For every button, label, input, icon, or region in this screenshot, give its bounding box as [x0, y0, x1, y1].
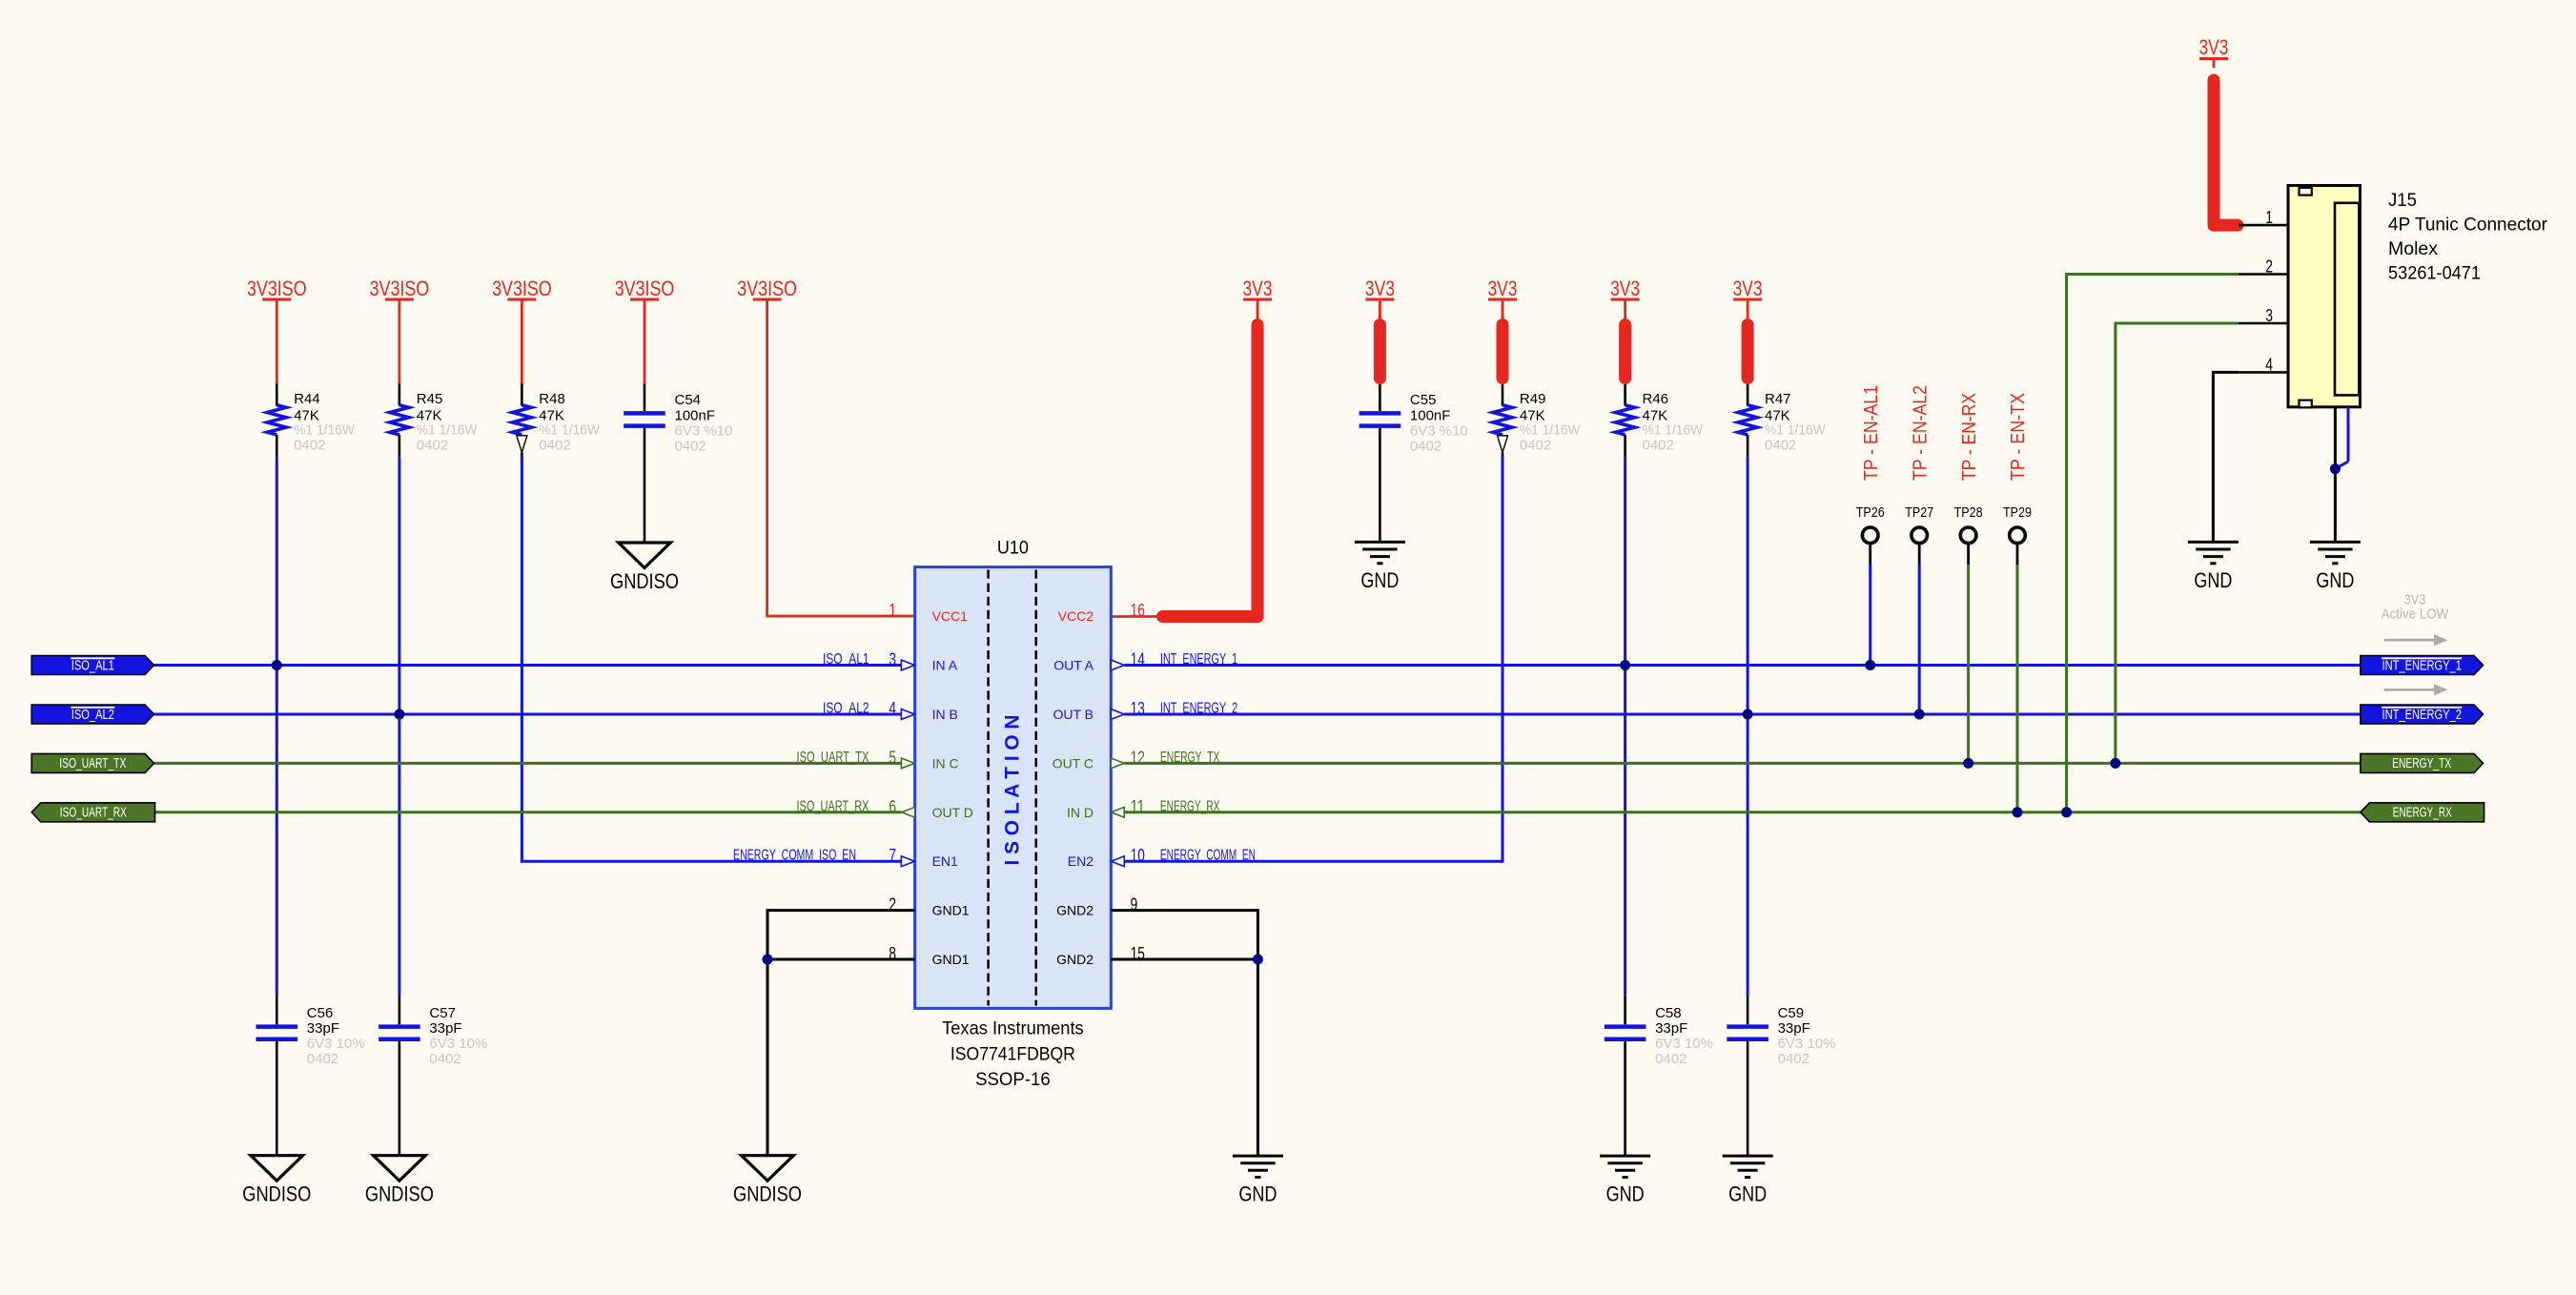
port INT_ENERGY_2 [2361, 705, 2484, 724]
svg-text:GND: GND [2194, 568, 2232, 592]
svg-text:GNDISO: GNDISO [733, 1182, 802, 1206]
svg-text:TP - EN-TX: TP - EN-TX [2008, 393, 2029, 481]
svg-text:3V3: 3V3 [1733, 277, 1763, 300]
connector J15 inner slot [2335, 203, 2359, 396]
port ISO_AL2 [31, 705, 153, 724]
svg-text:6: 6 [889, 796, 896, 816]
svg-text:4: 4 [2265, 354, 2273, 374]
svg-text:4: 4 [889, 698, 896, 718]
svg-text:R49: R49 [1520, 391, 1546, 407]
svg-text:ISO_AL1: ISO_AL1 [823, 651, 869, 668]
node ISO_AL2/R45 [394, 709, 404, 720]
svg-text:EN1: EN1 [932, 853, 958, 869]
svg-text:33pF: 33pF [1778, 1020, 1810, 1037]
svg-text:INT_ENERGY_2: INT_ENERGY_2 [1160, 701, 1237, 717]
svg-text:53261-0471: 53261-0471 [2388, 263, 2481, 284]
capacitor C59 [1727, 996, 1768, 1156]
svg-text:OUT D: OUT D [932, 805, 973, 820]
test point TP29 pad [2010, 527, 2026, 544]
power stub 3V3 #4 [1624, 301, 1626, 321]
svg-text:GND: GND [1238, 1182, 1277, 1206]
svg-text:3: 3 [889, 649, 896, 669]
power port 3V3ISO #3 [492, 277, 552, 300]
svg-text:GND2: GND2 [1056, 903, 1094, 918]
connector J15 notch top [2300, 188, 2312, 195]
capacitor C57 labels [429, 1005, 487, 1067]
svg-text:ENERGY_COMM_ISO_EN: ENERGY_COMM_ISO_EN [733, 848, 856, 864]
svg-text:100nF: 100nF [675, 408, 716, 424]
svg-text:%1 1/16W: %1 1/16W [1520, 422, 1581, 439]
capacitor C56 [256, 996, 298, 1156]
resistor R47 labels [1765, 391, 1826, 454]
U10 right pin names [1053, 608, 1094, 967]
svg-text:14: 14 [1131, 649, 1145, 669]
connector J15 pin numbers [2265, 207, 2273, 374]
svg-text:3V3ISO: 3V3ISO [615, 277, 675, 300]
svg-text:6V3 %10: 6V3 %10 [675, 423, 733, 440]
svg-text:TP - EN-RX: TP - EN-RX [1959, 393, 1980, 481]
svg-text:EN2: EN2 [1068, 853, 1094, 869]
svg-text:C59: C59 [1778, 1005, 1805, 1021]
svg-text:ENERGY_TX: ENERGY_TX [1160, 750, 1220, 766]
svg-text:TP28: TP28 [1954, 504, 1983, 521]
svg-text:I S O L A T I O N: I S O L A T I O N [1002, 715, 1024, 866]
svg-text:R48: R48 [539, 391, 565, 407]
resistor R44 labels [294, 391, 355, 454]
ground GND under U10 [1233, 1156, 1283, 1206]
U10 left pin numbers [889, 600, 896, 963]
wire 3V3ISO column 3 [521, 301, 523, 384]
wire R47 column [1747, 457, 1749, 996]
svg-text:VCC1: VCC1 [932, 608, 969, 624]
wire INT_ENERGY_2 right [1124, 713, 2361, 716]
svg-text:3V3: 3V3 [2404, 593, 2426, 608]
svg-text:6V3 %10: 6V3 %10 [1410, 423, 1468, 440]
port ENERGY_TX [2361, 753, 2484, 772]
svg-text:3V3: 3V3 [2199, 35, 2229, 59]
test point TP28 pad [1960, 527, 1976, 544]
capacitor C58 labels [1655, 1005, 1713, 1067]
svg-text:INT_ENERGY_2: INT_ENERGY_2 [2382, 708, 2462, 723]
wire ENERGY_RX right [1124, 811, 2361, 813]
svg-text:IN D: IN D [1067, 805, 1094, 820]
capacitor C56 labels [307, 1005, 365, 1067]
ground GND under C55 [1355, 542, 1405, 592]
gray note 3V3 Active LOW [2382, 593, 2449, 623]
capacitor C55 labels [1410, 392, 1468, 455]
thick 3V3 bar #4 [1619, 325, 1631, 379]
wire 3V3ISO column 2 [398, 301, 400, 384]
node INT_ENERGY_1/R46 [1620, 660, 1630, 670]
svg-text:0402: 0402 [1520, 438, 1551, 454]
thick 3V3 bus bar to VCC2 [1111, 325, 1257, 617]
thick 3V3 bar #5 [1742, 325, 1754, 379]
wire R45 column [398, 457, 400, 995]
svg-text:Active LOW: Active LOW [2382, 607, 2449, 623]
node GND2 junction [1253, 955, 1263, 965]
svg-text:0402: 0402 [429, 1051, 460, 1067]
svg-text:C54: C54 [675, 392, 702, 408]
svg-text:ISO_AL2: ISO_AL2 [823, 701, 869, 717]
power port 3V3 #4 [1610, 277, 1640, 300]
resistor R46 [1616, 384, 1635, 457]
pin 5 arrow [901, 758, 914, 769]
ground GND under J15 pin4 [2188, 542, 2239, 592]
test point TP27 pad [1912, 527, 1928, 544]
svg-text:1: 1 [889, 600, 896, 620]
svg-text:ISO_UART_TX: ISO_UART_TX [797, 750, 869, 766]
ground GNDISO under C57 [365, 1156, 434, 1206]
connector J15 pin stubs [2239, 225, 2288, 372]
svg-text:3V3ISO: 3V3ISO [492, 277, 552, 300]
thick 3V3 bar #2 [1374, 325, 1386, 379]
node ISO_AL1/R44 [272, 660, 282, 670]
wire ISO_UART_RX left [154, 811, 902, 813]
svg-text:R44: R44 [294, 391, 320, 407]
svg-text:OUT B: OUT B [1053, 707, 1094, 722]
svg-text:OUT A: OUT A [1053, 658, 1094, 673]
svg-text:3V3: 3V3 [1243, 277, 1273, 300]
svg-text:3V3ISO: 3V3ISO [370, 277, 430, 300]
svg-text:0402: 0402 [675, 439, 706, 455]
svg-text:C56: C56 [307, 1005, 334, 1021]
svg-text:ENERGY_COMM_EN: ENERGY_COMM_EN [1160, 848, 1256, 864]
svg-text:R45: R45 [417, 391, 443, 407]
svg-text:GND2: GND2 [1056, 952, 1094, 967]
wire GND2 pin9 [1111, 909, 1257, 912]
svg-text:3: 3 [2265, 305, 2273, 325]
svg-text:GND: GND [1360, 568, 1399, 592]
ground GND under C58 [1600, 1156, 1650, 1206]
wire J15 pin4 to GND [2213, 371, 2239, 543]
pin 13 arrow [1111, 709, 1124, 720]
svg-text:0402: 0402 [539, 438, 570, 454]
svg-text:0402: 0402 [294, 438, 325, 454]
wire TP28 to bus [1967, 565, 1970, 763]
port ISO_UART_TX [31, 753, 153, 772]
svg-text:Molex: Molex [2388, 238, 2438, 259]
svg-text:GNDISO: GNDISO [242, 1182, 311, 1206]
svg-text:ISO_UART_RX: ISO_UART_RX [797, 798, 869, 814]
svg-text:6V3 10%: 6V3 10% [429, 1036, 487, 1052]
svg-text:33pF: 33pF [1655, 1020, 1687, 1037]
svg-text:6V3 10%: 6V3 10% [307, 1036, 365, 1052]
power port 3V3ISO #4 [615, 277, 675, 300]
svg-text:4P Tunic Connector: 4P Tunic Connector [2388, 215, 2547, 236]
wire TP28 stub [1967, 543, 1970, 565]
svg-text:10: 10 [1131, 845, 1145, 865]
pin 14 arrow [1111, 660, 1124, 670]
wire INT_ENERGY_1 right [1124, 664, 2361, 667]
svg-text:GNDISO: GNDISO [365, 1182, 434, 1206]
power stub 3V3 #1 [1257, 301, 1259, 321]
svg-text:3V3ISO: 3V3ISO [247, 277, 307, 300]
svg-text:GND: GND [2316, 568, 2354, 592]
svg-text:12: 12 [1131, 747, 1145, 767]
power stub 3V3 #5 [1747, 301, 1749, 321]
power stub 3V3 #3 [1502, 301, 1504, 321]
svg-text:C55: C55 [1410, 392, 1437, 408]
wire J15 pin3 to ENERGY_TX [2116, 322, 2239, 764]
svg-text:IN C: IN C [932, 755, 959, 771]
svg-text:3V3: 3V3 [1610, 277, 1640, 300]
svg-text:GND: GND [1606, 1182, 1645, 1206]
capacitor C59 labels [1778, 1005, 1836, 1067]
svg-text:ENERGY_RX: ENERGY_RX [1160, 798, 1220, 814]
power port 3V3 #1 [1243, 277, 1273, 300]
connector J15 labels [2388, 190, 2547, 284]
svg-text:1: 1 [2265, 207, 2273, 227]
svg-text:13: 13 [1131, 698, 1145, 718]
svg-text:2: 2 [2265, 257, 2273, 277]
wire ISO_AL2 left [154, 713, 902, 716]
pin 10 arrow [1111, 856, 1124, 867]
resistor R45 labels [417, 391, 478, 454]
wire ISO_AL1 left [154, 664, 902, 667]
svg-text:0402: 0402 [1643, 438, 1674, 454]
svg-text:6V3 10%: 6V3 10% [1655, 1036, 1713, 1052]
svg-text:0402: 0402 [1655, 1051, 1687, 1067]
op-amp U10 body [915, 567, 1112, 1009]
svg-text:ISO_UART_TX: ISO_UART_TX [59, 756, 126, 771]
port ENERGY_RX [2361, 803, 2484, 822]
wire R49 column to EN2 [1124, 457, 1503, 862]
pin 3 arrow [901, 660, 914, 670]
U10 left pin names [932, 608, 973, 967]
capacitor C54 labels [675, 392, 733, 455]
wire TP26 stub [1869, 543, 1871, 565]
svg-text:0402: 0402 [1410, 439, 1441, 455]
svg-text:%1 1/16W: %1 1/16W [539, 422, 600, 439]
power stub 3V3 J15 [2213, 60, 2216, 68]
svg-text:33pF: 33pF [307, 1020, 339, 1037]
node TP29 junction [2013, 807, 2023, 817]
svg-text:ISO_AL1: ISO_AL1 [72, 658, 114, 673]
power port 3V3ISO #1 [247, 277, 307, 300]
svg-text:TP29: TP29 [2003, 504, 2032, 521]
wire R48 column to EN1 [521, 457, 902, 862]
ground GNDISO under C54 [610, 543, 679, 593]
svg-text:0402: 0402 [1765, 438, 1796, 454]
svg-text:6V3 10%: 6V3 10% [1778, 1036, 1836, 1052]
svg-text:C58: C58 [1655, 1005, 1682, 1021]
power port 3V3 #3 [1488, 277, 1518, 300]
node GND1 junction [763, 955, 773, 965]
wire J15 pin2 to ENERGY_RX [2067, 273, 2239, 812]
svg-text:IN A: IN A [932, 658, 958, 673]
port INT_ENERGY_1 [2361, 656, 2484, 675]
svg-text:J15: J15 [2388, 190, 2417, 211]
wire J15 shield to GND [2334, 407, 2337, 543]
svg-text:0402: 0402 [1778, 1051, 1809, 1067]
svg-text:GND: GND [1728, 1182, 1767, 1206]
capacitor C57 [378, 996, 420, 1156]
svg-text:%1 1/16W: %1 1/16W [1765, 422, 1826, 439]
U10 isolation dashed line 1 [987, 570, 990, 1006]
connector J15 body [2288, 186, 2361, 407]
power stub 3V3 #2 [1379, 301, 1381, 321]
node INT_ENERGY_2/R47 [1743, 709, 1753, 720]
svg-text:OUT C: OUT C [1053, 755, 1094, 771]
U10 isolation dashed line 2 [1034, 570, 1037, 1006]
pin 4 arrow [901, 709, 914, 720]
gray direction arrow 1 [2384, 634, 2448, 646]
wire GND2 vertical [1257, 909, 1259, 1156]
power port 3V3 #5 [1733, 277, 1763, 300]
wire TP27 to bus [1918, 565, 1921, 714]
svg-text:IN B: IN B [932, 707, 958, 722]
wire 3V3ISO column 1 [276, 301, 278, 384]
svg-text:3V3ISO: 3V3ISO [737, 277, 797, 300]
connector J15 notch bottom [2300, 401, 2312, 408]
svg-text:TP26: TP26 [1856, 504, 1885, 521]
svg-text:7: 7 [889, 845, 896, 865]
svg-text:ISO_AL2: ISO_AL2 [72, 708, 114, 723]
wire GND1 pin8 [767, 958, 915, 961]
wire GND1 pin2 [767, 909, 915, 912]
svg-text:0402: 0402 [307, 1051, 338, 1067]
wire 3V3ISO column 4 [644, 301, 646, 384]
resistor R46 labels [1643, 391, 1704, 454]
wire 3V3ISO to VCC1 pin 1 [766, 301, 914, 617]
wire GND1 vertical [767, 909, 769, 1156]
svg-text:0402: 0402 [417, 438, 448, 454]
wire ENERGY_TX right [1124, 762, 2361, 765]
power port 3V3ISO #2 [370, 277, 430, 300]
svg-text:16: 16 [1131, 600, 1145, 620]
ground GNDISO under C56 [242, 1156, 311, 1206]
power port 3V3 #2 [1365, 277, 1395, 300]
wire TP26 to bus [1869, 565, 1871, 666]
svg-text:3V3: 3V3 [1488, 277, 1518, 300]
wire J15 mount blue [2335, 407, 2348, 469]
svg-text:5: 5 [889, 747, 896, 767]
ground GND under J15 shield [2310, 542, 2361, 592]
node J15 shield junction [2330, 463, 2341, 474]
resistor R49 [1493, 384, 1512, 457]
svg-text:3V3: 3V3 [1365, 277, 1395, 300]
pin 11 arrow [1111, 807, 1124, 817]
pin 7 arrow [901, 856, 914, 867]
svg-text:ISO_UART_RX: ISO_UART_RX [60, 806, 127, 821]
capacitor C54 [624, 384, 665, 544]
pin 6 arrow [902, 807, 915, 817]
svg-text:%1 1/16W: %1 1/16W [417, 422, 478, 439]
resistor R44 [267, 384, 286, 458]
capacitor C55 [1360, 384, 1401, 542]
svg-text:ENERGY_RX: ENERGY_RX [2393, 806, 2452, 821]
svg-text:U10: U10 [997, 538, 1029, 559]
svg-text:11: 11 [1131, 796, 1145, 816]
svg-text:ENERGY_TX: ENERGY_TX [2392, 756, 2451, 771]
wire TP29 stub [2016, 543, 2019, 565]
wire ISO_UART_TX left [154, 762, 902, 765]
pin 12 arrow [1111, 758, 1124, 769]
power port 3V3 for J15 [2199, 35, 2229, 59]
port ISO_UART_RX [31, 803, 154, 822]
svg-text:GND1: GND1 [932, 952, 970, 967]
svg-text:100nF: 100nF [1410, 408, 1451, 424]
ground GNDISO under U10 [733, 1156, 802, 1206]
wire GND2 pin15 [1111, 958, 1257, 961]
svg-text:SSOP-16: SSOP-16 [975, 1069, 1051, 1090]
U10 right pin numbers [1131, 600, 1145, 963]
U10 part info [942, 1018, 1084, 1090]
svg-text:C57: C57 [429, 1005, 456, 1021]
svg-text:GND1: GND1 [932, 903, 970, 918]
svg-text:33pF: 33pF [429, 1020, 461, 1037]
ground GND under C59 [1723, 1156, 1773, 1206]
svg-text:TP - EN-AL1: TP - EN-AL1 [1861, 385, 1882, 481]
wire TP27 stub [1918, 543, 1921, 565]
svg-text:TP27: TP27 [1905, 504, 1933, 521]
thick 3V3 bar #3 [1497, 325, 1509, 379]
svg-text:TP - EN-AL2: TP - EN-AL2 [1910, 385, 1931, 481]
svg-text:GNDISO: GNDISO [610, 569, 679, 593]
svg-text:ISO7741FDBQR: ISO7741FDBQR [951, 1043, 1075, 1064]
wire TP29 to bus [2016, 565, 2019, 812]
wire R44 column [276, 457, 278, 995]
svg-text:R46: R46 [1643, 391, 1669, 407]
svg-text:INT_ENERGY_1: INT_ENERGY_1 [2382, 658, 2462, 673]
svg-text:%1 1/16W: %1 1/16W [1643, 422, 1704, 439]
resistor R47 [1738, 384, 1757, 457]
resistor R48 [512, 384, 531, 458]
resistor R49 labels [1520, 391, 1581, 454]
wire R46 column [1624, 457, 1626, 996]
svg-text:%1 1/16W: %1 1/16W [294, 422, 355, 439]
port ISO_AL1 [31, 656, 153, 675]
thick 3V3 bar J15 [2214, 80, 2238, 225]
svg-text:Texas Instruments: Texas Instruments [942, 1018, 1084, 1039]
power port 3V3ISO #5 [737, 277, 797, 300]
svg-text:R47: R47 [1765, 391, 1791, 407]
gray direction arrow 2 [2384, 684, 2448, 695]
resistor R45 [390, 384, 409, 458]
node TP27 junction [1914, 709, 1925, 720]
svg-text:VCC2: VCC2 [1058, 608, 1094, 624]
node J15 pin2/ENERGY_RX [2061, 807, 2072, 817]
svg-text:INT_ENERGY_1: INT_ENERGY_1 [1160, 651, 1237, 668]
resistor R48 labels [539, 391, 600, 454]
node TP26 junction [1865, 660, 1875, 670]
test point TP26 pad [1862, 527, 1878, 544]
node TP28 junction [1963, 758, 1973, 769]
node J15 pin3/ENERGY_TX [2110, 758, 2120, 769]
capacitor C58 [1605, 996, 1646, 1156]
